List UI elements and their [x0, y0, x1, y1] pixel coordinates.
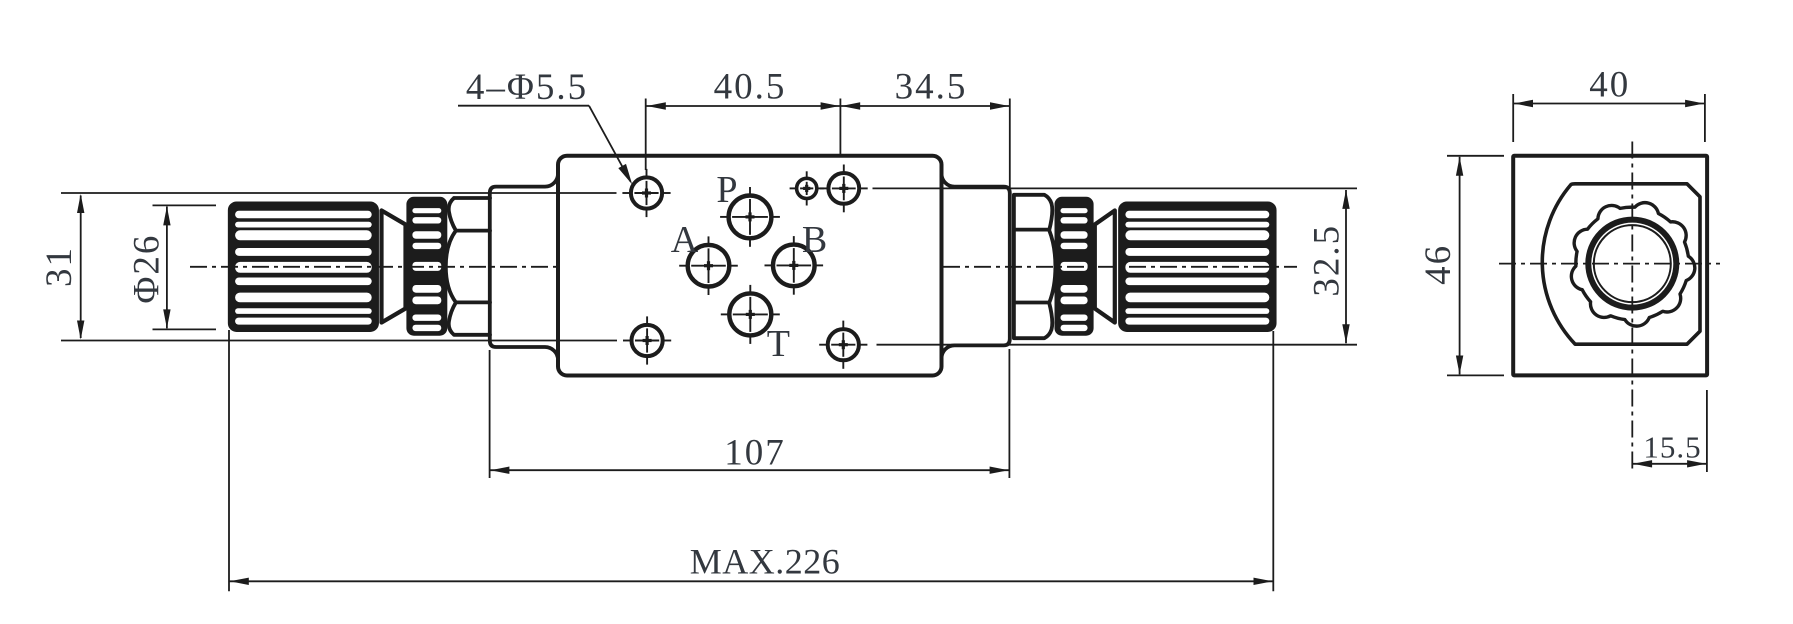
dimension 31 (left): [80, 196, 82, 339]
svg-text:15.5: 15.5: [1643, 430, 1701, 465]
dimension 32.5 (right): [1345, 190, 1347, 343]
svg-text:31: 31: [39, 246, 80, 287]
wire: horizontal centerline right segment: [943, 266, 1297, 268]
svg-text:32.5: 32.5: [1307, 224, 1348, 297]
svg-text:Φ26: Φ26: [127, 234, 168, 304]
svg-text:107: 107: [724, 433, 786, 474]
port A: [688, 245, 730, 287]
wire: top-right hole line / 32.5 top extension: [873, 187, 1358, 189]
svg-text:46: 46: [1418, 244, 1459, 285]
end view: horizontal centerline: [1499, 263, 1720, 265]
end view: vertical centerline: [1631, 142, 1633, 473]
end view: knob outer circle: [1588, 220, 1676, 308]
svg-text:40: 40: [1589, 65, 1630, 106]
mounting hole top-left: [631, 177, 662, 208]
port P: [729, 196, 772, 239]
svg-text:40.5: 40.5: [714, 67, 787, 108]
right neck cylinder: [942, 174, 1010, 359]
dimension 107: [489, 350, 491, 478]
wire: bottom-left hole line: [61, 340, 617, 342]
port T: [729, 293, 771, 335]
right hex nut: [1014, 195, 1056, 338]
right threaded ring: [1056, 198, 1092, 334]
svg-text:A: A: [671, 219, 699, 261]
wire: top-left hole line: [61, 192, 617, 194]
left taper cone: [382, 211, 406, 323]
svg-text:B: B: [802, 219, 827, 261]
end view: knurled knob outline (scalloped): [1571, 203, 1694, 326]
left knurled knob: [230, 203, 378, 330]
svg-text:P: P: [716, 169, 737, 211]
left neck cylinder: [490, 174, 558, 360]
mounting hole bottom-left: [632, 325, 663, 356]
small pilot hole: [797, 178, 817, 198]
end view: knob inner circle: [1594, 225, 1671, 302]
dimension 40.5: [645, 99, 647, 171]
dimension 34.5: [1009, 99, 1011, 189]
end view: body profile: [1542, 184, 1700, 344]
mounting hole bottom-right: [828, 329, 859, 360]
mounting hole top-right: [828, 173, 859, 204]
right taper cone: [1095, 211, 1115, 323]
left threaded ring: [408, 198, 446, 334]
dimension 40 (end view): [1512, 94, 1514, 142]
svg-text:4–Φ5.5: 4–Φ5.5: [466, 67, 588, 108]
wire: bottom-right hole line / 32.5 bottom extension: [877, 344, 1358, 346]
left hex nut: [446, 198, 490, 335]
svg-text:T: T: [767, 323, 790, 365]
dimension Phi26: [153, 204, 217, 206]
svg-text:34.5: 34.5: [895, 67, 968, 108]
dimension 15.5 (end view): [1706, 390, 1708, 472]
dimension MAX.226: [228, 330, 230, 591]
valve body: [558, 156, 942, 376]
right knurled knob: [1120, 203, 1275, 330]
end view: outer square: [1513, 156, 1707, 376]
port B: [773, 245, 815, 287]
svg-text:MAX.226: MAX.226: [690, 542, 841, 582]
dimension 46 (end view): [1447, 155, 1504, 157]
wire: horizontal centerline left segment: [190, 266, 557, 268]
